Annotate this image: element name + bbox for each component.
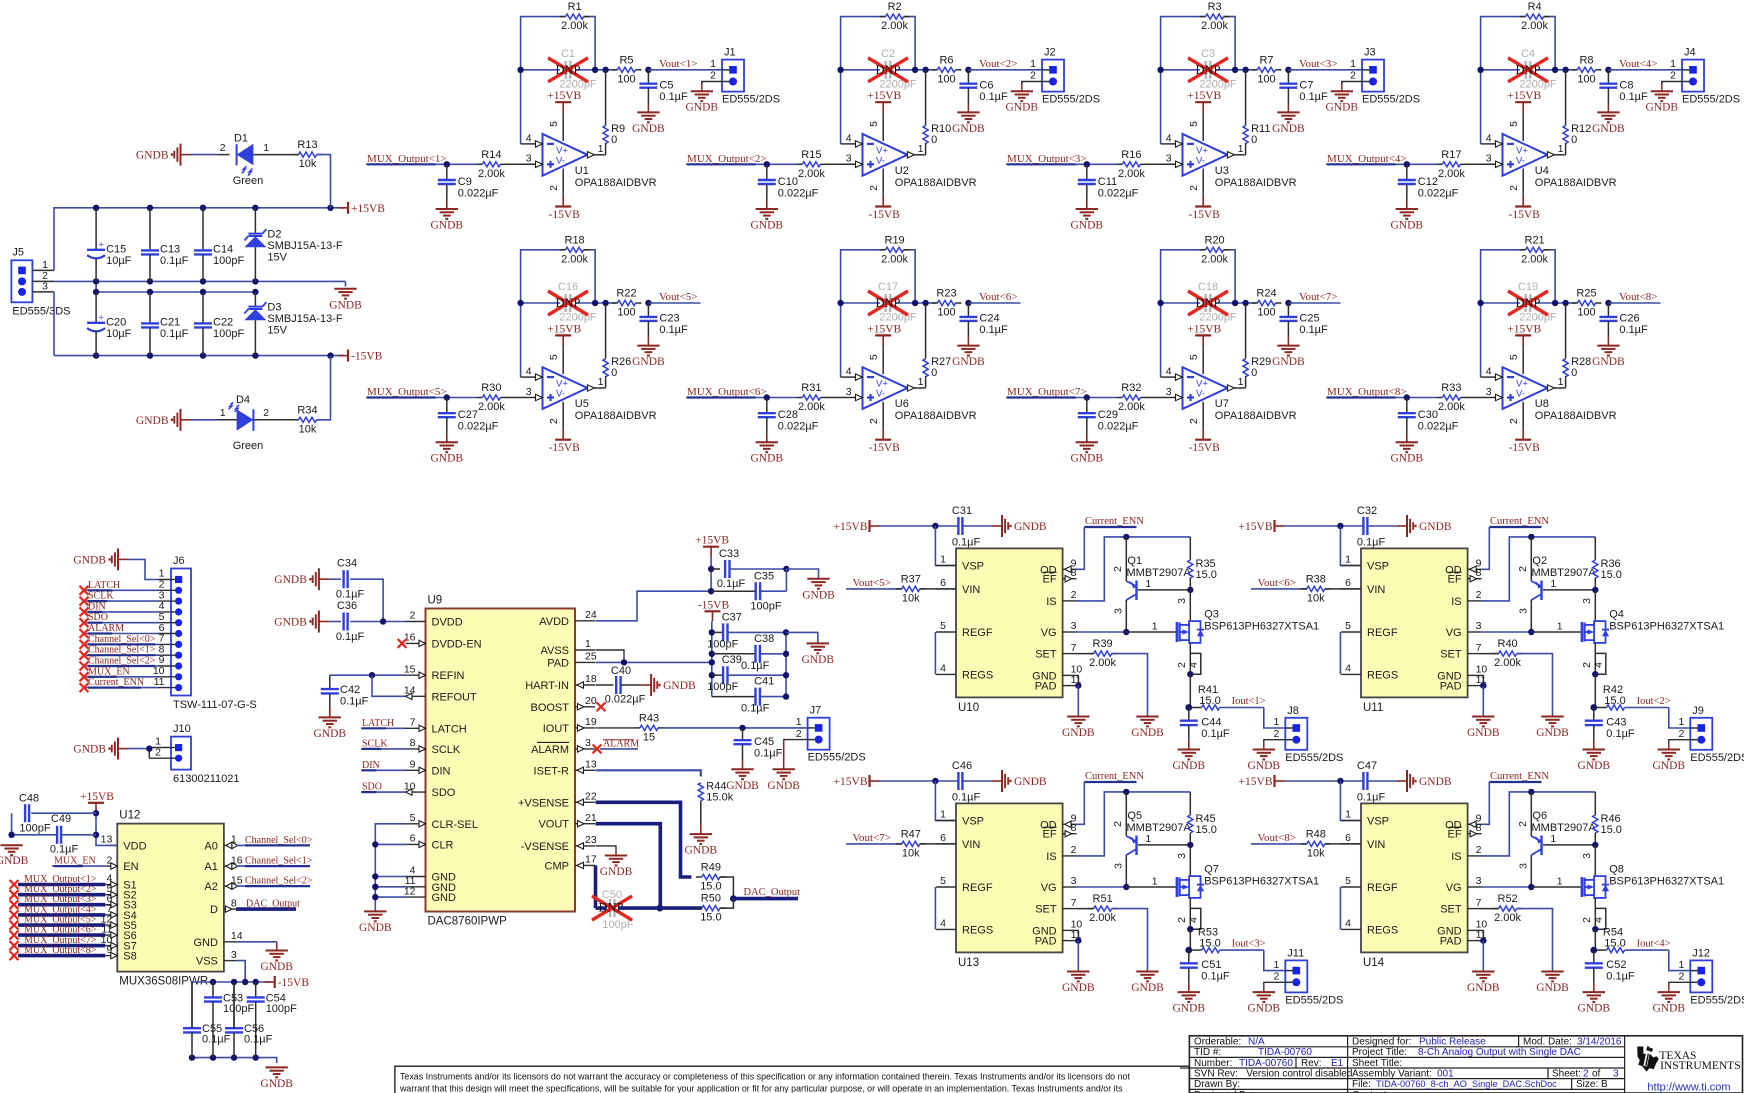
svg-text:BSP613PH6327XTSA1: BSP613PH6327XTSA1 bbox=[1204, 876, 1319, 888]
junction bbox=[730, 895, 737, 902]
wire Q base bbox=[1543, 589, 1595, 591]
svg-text:J2: J2 bbox=[1044, 47, 1056, 59]
capacitor C12 bbox=[1398, 164, 1459, 209]
junction bbox=[1562, 300, 1568, 306]
net DAC_Output bbox=[236, 899, 300, 910]
wire to ground bbox=[345, 281, 347, 286]
svg-text:3: 3 bbox=[1581, 598, 1593, 604]
svg-text:GNDB: GNDB bbox=[952, 123, 985, 135]
resistor R22 bbox=[612, 288, 642, 319]
svg-text:GNDB: GNDB bbox=[136, 150, 169, 162]
svg-text:2.00k: 2.00k bbox=[881, 20, 908, 32]
junction bbox=[372, 884, 378, 890]
net MUX_Output<1> bbox=[366, 153, 447, 165]
wire +15VB rail bbox=[54, 208, 344, 271]
transistor Q5 MMBT2907A bbox=[1112, 792, 1192, 887]
svg-text:U12: U12 bbox=[119, 810, 140, 822]
resistor R3 bbox=[1200, 1, 1230, 32]
svg-text:4: 4 bbox=[1166, 132, 1172, 144]
svg-text:0: 0 bbox=[1251, 134, 1257, 146]
svg-text:0: 0 bbox=[611, 367, 617, 379]
connector J10 61300211021 bbox=[149, 723, 239, 785]
svg-text:PAD: PAD bbox=[1035, 681, 1057, 693]
ground GNDB bbox=[274, 611, 329, 633]
junction bbox=[922, 300, 928, 306]
junction bbox=[1185, 704, 1192, 711]
svg-text:2: 2 bbox=[1176, 917, 1188, 923]
svg-text:C36: C36 bbox=[337, 600, 357, 612]
svg-text:LATCH: LATCH bbox=[88, 580, 120, 591]
svg-text:2: 2 bbox=[1273, 728, 1279, 740]
svg-text:AVSS: AVSS bbox=[540, 645, 569, 657]
svg-text:C27: C27 bbox=[458, 409, 478, 421]
wire bbox=[1481, 653, 1498, 655]
svg-text:GNDB: GNDB bbox=[1071, 220, 1104, 232]
svg-text:2.00k: 2.00k bbox=[561, 20, 588, 32]
svg-text:of: of bbox=[1592, 1068, 1601, 1079]
pin EN 2 bbox=[105, 854, 138, 873]
svg-text:GNDB: GNDB bbox=[329, 299, 362, 311]
ground GNDB bbox=[1071, 442, 1104, 465]
ground GNDB bbox=[632, 346, 665, 369]
svg-text:R43: R43 bbox=[639, 712, 659, 724]
capacitor C19 DNP bbox=[1518, 281, 1557, 324]
wire VSP bbox=[1340, 526, 1361, 566]
pin EF 8 bbox=[1043, 567, 1077, 586]
svg-text:C8: C8 bbox=[1619, 80, 1633, 92]
svg-text:2: 2 bbox=[1581, 917, 1593, 923]
ground GNDB bbox=[1397, 515, 1452, 537]
svg-text:VG: VG bbox=[1041, 882, 1057, 894]
wire ground rail bbox=[190, 1058, 277, 1063]
junction bbox=[912, 67, 918, 73]
wire VSP bbox=[935, 526, 956, 566]
net Vout<4> bbox=[1608, 58, 1682, 70]
svg-text:C18: C18 bbox=[1198, 281, 1218, 293]
wire Q base bbox=[1138, 844, 1190, 846]
pin S2 5 bbox=[105, 883, 136, 902]
svg-text:10k: 10k bbox=[902, 847, 920, 859]
svg-text:MUX_Output<8>: MUX_Output<8> bbox=[1327, 386, 1407, 398]
svg-text:0: 0 bbox=[931, 134, 937, 146]
svg-text:SMBJ15A-13-F: SMBJ15A-13-F bbox=[267, 313, 342, 325]
svg-text:GNDB: GNDB bbox=[1248, 1003, 1281, 1015]
svg-text:2: 2 bbox=[1517, 821, 1529, 827]
junction bbox=[602, 67, 608, 73]
capacitor C36 bbox=[336, 600, 365, 643]
svg-text:2: 2 bbox=[548, 185, 560, 191]
wire bbox=[1668, 986, 1670, 993]
svg-text:GNDB: GNDB bbox=[1326, 102, 1359, 114]
capacitor C48 bbox=[19, 793, 51, 835]
junction bbox=[517, 67, 523, 73]
net MUX_Output<6> bbox=[686, 386, 767, 398]
svg-text:23: 23 bbox=[585, 834, 597, 846]
svg-text:1: 1 bbox=[220, 407, 226, 419]
title block text bbox=[1194, 1037, 1622, 1091]
svg-text:VSP: VSP bbox=[1367, 816, 1389, 828]
capacitor C53 bbox=[204, 982, 254, 1058]
wire bbox=[720, 899, 734, 909]
pin S4 7 bbox=[105, 903, 136, 922]
wire SET to ground bbox=[1517, 909, 1553, 972]
resistor R41 bbox=[1190, 684, 1220, 710]
svg-text:2: 2 bbox=[1583, 1068, 1589, 1079]
svg-text:4: 4 bbox=[1592, 662, 1604, 668]
wire bbox=[1368, 780, 1397, 782]
pin SDO 10 bbox=[404, 780, 456, 799]
capacitor C54 bbox=[247, 982, 297, 1058]
no-connect X bbox=[10, 931, 19, 940]
pin SET 7 bbox=[1035, 642, 1076, 661]
capacitor C45 bbox=[734, 728, 783, 769]
wire bbox=[1325, 843, 1361, 845]
svg-text:+: + bbox=[98, 240, 104, 251]
svg-text:Size: B: Size: B bbox=[1576, 1079, 1608, 1090]
pin CMP 17 bbox=[545, 854, 597, 873]
svg-text:15V: 15V bbox=[267, 252, 287, 264]
capacitor C38 bbox=[712, 633, 786, 672]
svg-text:R4: R4 bbox=[1528, 1, 1542, 13]
svg-text:Vout<5>: Vout<5> bbox=[659, 291, 698, 303]
svg-text:100pF: 100pF bbox=[707, 638, 738, 650]
junction bbox=[783, 693, 789, 699]
wire opamp V+ pin 5 bbox=[548, 345, 563, 374]
svg-text:10k: 10k bbox=[1307, 592, 1325, 604]
junction bbox=[252, 205, 258, 211]
svg-text:3: 3 bbox=[526, 153, 532, 165]
junction bbox=[837, 67, 843, 73]
resistor R29 bbox=[1243, 356, 1271, 379]
svg-text:1: 1 bbox=[1558, 143, 1564, 155]
svg-text:ED555/2DS: ED555/2DS bbox=[1682, 94, 1740, 106]
svg-text:Vout<3>: Vout<3> bbox=[1299, 58, 1338, 70]
svg-text:REGF: REGF bbox=[1367, 627, 1398, 639]
capacitor C6 bbox=[959, 70, 1008, 113]
svg-text:CLR-SEL: CLR-SEL bbox=[432, 819, 478, 831]
wire opamp pin 3 bbox=[505, 153, 543, 168]
transistor Q2 MMBT2907A bbox=[1517, 537, 1597, 632]
op-amp U7 OPA188AIDBVR bbox=[1183, 367, 1297, 422]
svg-text:GNDB: GNDB bbox=[260, 1078, 293, 1090]
wire SET to ground bbox=[1112, 654, 1148, 717]
wire opamp V+ pin 5 bbox=[1188, 345, 1203, 374]
svg-text:2: 2 bbox=[155, 746, 161, 758]
svg-text:OPA188AIDBVR: OPA188AIDBVR bbox=[1535, 177, 1617, 189]
svg-text:C29: C29 bbox=[1098, 409, 1118, 421]
junction bbox=[1075, 682, 1081, 688]
capacitor C41 bbox=[712, 676, 786, 715]
svg-text:3: 3 bbox=[231, 949, 237, 961]
svg-text:GNDB: GNDB bbox=[663, 680, 696, 692]
pin S6 11 bbox=[101, 923, 136, 942]
resistor R26 bbox=[603, 356, 631, 379]
wire bbox=[880, 525, 959, 527]
svg-text:Q2: Q2 bbox=[1532, 555, 1547, 567]
pin IS 2 bbox=[1046, 844, 1076, 863]
svg-text:2.00k: 2.00k bbox=[1089, 657, 1116, 669]
svg-text:8: 8 bbox=[1071, 567, 1077, 579]
net Vout<5> bbox=[846, 577, 902, 589]
wire bbox=[191, 154, 219, 156]
wire bbox=[700, 775, 702, 778]
op-amp U2 OPA188AIDBVR bbox=[863, 134, 977, 189]
junction bbox=[1337, 778, 1343, 784]
svg-text:TIDA-00760: TIDA-00760 bbox=[1258, 1047, 1312, 1058]
svg-text:VG: VG bbox=[1446, 627, 1462, 639]
no-connect X bbox=[80, 672, 89, 681]
resistor R49 bbox=[696, 862, 726, 893]
svg-text:S8: S8 bbox=[123, 951, 136, 963]
ground GNDB bbox=[1062, 717, 1095, 740]
svg-text:C12: C12 bbox=[1418, 176, 1438, 188]
svg-text:R32: R32 bbox=[1121, 382, 1141, 394]
svg-text:REGS: REGS bbox=[962, 924, 993, 936]
pin PAD 11 bbox=[1035, 674, 1082, 693]
svg-text:GNDB: GNDB bbox=[314, 728, 347, 740]
svg-text:1: 1 bbox=[1550, 833, 1556, 845]
svg-text:100: 100 bbox=[1577, 307, 1595, 319]
svg-text:Vout<8>: Vout<8> bbox=[1619, 291, 1658, 303]
svg-text:C31: C31 bbox=[952, 505, 972, 517]
svg-text:EN: EN bbox=[123, 861, 138, 873]
svg-text:3: 3 bbox=[585, 737, 591, 749]
svg-text:4: 4 bbox=[1187, 662, 1199, 668]
capacitor C7 bbox=[1279, 70, 1328, 113]
svg-text:C39: C39 bbox=[722, 654, 742, 666]
pin GND 4 bbox=[406, 865, 457, 884]
capacitor C13 bbox=[141, 208, 189, 282]
svg-text:R38: R38 bbox=[1306, 573, 1326, 585]
wire bbox=[1285, 525, 1364, 527]
no-connect X bbox=[10, 921, 19, 930]
svg-text:ED555/2DS: ED555/2DS bbox=[722, 94, 780, 106]
pin SCLK 8 bbox=[406, 737, 461, 756]
net Vout<6> bbox=[968, 291, 1020, 303]
svg-text:TIDA-00760: TIDA-00760 bbox=[1239, 1058, 1293, 1069]
svg-text:-VSENSE: -VSENSE bbox=[521, 841, 569, 853]
svg-text:15.0: 15.0 bbox=[1199, 695, 1220, 707]
capacitor C15 bbox=[87, 208, 132, 282]
resistor R30 bbox=[476, 382, 506, 413]
svg-text:MUX_Output<1>: MUX_Output<1> bbox=[367, 153, 447, 165]
wire feedback right bbox=[584, 17, 596, 70]
net Current_ENN bbox=[1489, 516, 1549, 527]
svg-text:10µF: 10µF bbox=[106, 328, 132, 340]
svg-text:Texas Instruments and/or its l: Texas Instruments and/or its licensors d… bbox=[400, 1072, 1130, 1082]
op-amp U6 OPA188AIDBVR bbox=[863, 367, 977, 422]
svg-text:BSP613PH6327XTSA1: BSP613PH6327XTSA1 bbox=[1204, 621, 1319, 633]
net ALARM bbox=[600, 738, 639, 749]
wire bbox=[329, 578, 341, 580]
wire VSP bbox=[1340, 781, 1361, 821]
svg-text:15.0: 15.0 bbox=[1604, 938, 1625, 950]
junction bbox=[708, 566, 714, 572]
svg-text:C13: C13 bbox=[160, 244, 180, 256]
svg-text:7: 7 bbox=[1476, 897, 1482, 909]
svg-text:1: 1 bbox=[1678, 959, 1684, 971]
svg-text:GNDB: GNDB bbox=[802, 589, 835, 601]
svg-text:GNDB: GNDB bbox=[686, 102, 719, 114]
pin GND 12 bbox=[404, 885, 456, 904]
svg-text:15: 15 bbox=[643, 731, 655, 743]
wire VG bbox=[1481, 886, 1531, 888]
svg-text:2200pF: 2200pF bbox=[879, 78, 917, 90]
svg-text:10k: 10k bbox=[1307, 847, 1325, 859]
no-connect X bbox=[10, 910, 19, 919]
svg-text:0.1µF: 0.1µF bbox=[1201, 971, 1230, 983]
svg-text:A1: A1 bbox=[204, 861, 217, 873]
wire IS net bbox=[1076, 792, 1190, 856]
svg-text:GNDB: GNDB bbox=[767, 780, 800, 792]
svg-text:5: 5 bbox=[410, 812, 416, 824]
resistor R19 bbox=[880, 234, 910, 265]
svg-text:-15VB: -15VB bbox=[549, 442, 581, 454]
capacitor C43 bbox=[1585, 708, 1635, 750]
svg-text:C24: C24 bbox=[979, 313, 999, 325]
junction bbox=[1480, 937, 1486, 943]
svg-text:+15VB: +15VB bbox=[80, 791, 114, 803]
junction bbox=[1285, 67, 1291, 73]
svg-text:ED555/2DS: ED555/2DS bbox=[1690, 994, 1744, 1006]
junction bbox=[200, 205, 206, 211]
ground GNDB bbox=[726, 769, 759, 792]
svg-text:20: 20 bbox=[585, 695, 597, 707]
svg-text:REGF: REGF bbox=[1367, 882, 1398, 894]
svg-text:TSW-111-07-G-S: TSW-111-07-G-S bbox=[173, 699, 257, 711]
svg-text:C47: C47 bbox=[1357, 760, 1377, 772]
svg-text:3: 3 bbox=[1166, 153, 1172, 165]
resistor R47 bbox=[896, 828, 926, 859]
junction bbox=[1187, 842, 1193, 848]
wire opamp output pin 1 bbox=[1227, 143, 1245, 158]
power +15VB bbox=[1187, 323, 1221, 345]
svg-text:AVDD: AVDD bbox=[539, 616, 569, 628]
junction bbox=[1123, 534, 1129, 540]
wire +VSENSE bus bbox=[596, 802, 692, 877]
ground GNDB bbox=[431, 442, 464, 465]
pin A2 15 bbox=[204, 874, 242, 893]
resistor R4 bbox=[1520, 1, 1550, 32]
pin A1 16 bbox=[204, 854, 242, 873]
svg-text:5: 5 bbox=[1188, 121, 1200, 127]
pin VSP 1 bbox=[1341, 809, 1389, 828]
svg-text:R17: R17 bbox=[1441, 149, 1461, 161]
svg-text:J11: J11 bbox=[1287, 947, 1304, 959]
svg-text:0.1µF: 0.1µF bbox=[952, 792, 981, 804]
resistor R36 bbox=[1593, 537, 1622, 590]
pin DVDD-EN 16 bbox=[404, 632, 482, 651]
wire DVDD bbox=[350, 621, 405, 623]
svg-text:GNDB: GNDB bbox=[1653, 760, 1686, 772]
wire R9 to feedback node bbox=[925, 70, 927, 126]
pin GND 10 bbox=[1437, 664, 1487, 683]
capacitor C4 DNP bbox=[1519, 48, 1557, 91]
svg-text:V-: V- bbox=[1196, 155, 1205, 166]
svg-text:R8: R8 bbox=[1579, 54, 1593, 66]
svg-text:C25: C25 bbox=[1299, 313, 1319, 325]
net Current_ENN bbox=[1489, 771, 1549, 782]
svg-text:DAC_Output: DAC_Output bbox=[246, 899, 300, 910]
wire C49 row bbox=[12, 834, 56, 836]
svg-text:J12: J12 bbox=[1692, 947, 1710, 959]
wire bbox=[1368, 525, 1397, 527]
svg-text:R20: R20 bbox=[1205, 234, 1225, 246]
capacitor C32 bbox=[1357, 505, 1386, 549]
svg-text:2: 2 bbox=[1273, 971, 1279, 983]
junction bbox=[1123, 884, 1129, 890]
svg-text:V-: V- bbox=[556, 389, 565, 400]
svg-text:13: 13 bbox=[101, 834, 113, 846]
svg-text:0.1µF: 0.1µF bbox=[202, 1034, 231, 1046]
svg-text:GNDB: GNDB bbox=[1131, 982, 1164, 994]
junction bbox=[1187, 671, 1193, 677]
junction bbox=[242, 979, 248, 985]
capacitor C49 bbox=[50, 813, 79, 855]
svg-text:2: 2 bbox=[1508, 185, 1520, 191]
svg-text:C1: C1 bbox=[561, 48, 575, 60]
svg-text:3: 3 bbox=[1176, 598, 1188, 604]
wire PAD to ground bbox=[1482, 686, 1484, 717]
capacitor C27 bbox=[438, 398, 499, 443]
svg-text:0.1µF: 0.1µF bbox=[659, 91, 688, 103]
junction bbox=[1185, 947, 1192, 954]
svg-text:DNP: DNP bbox=[875, 63, 900, 77]
svg-text:MUX_Output<4>: MUX_Output<4> bbox=[1327, 153, 1407, 165]
capacitor C39 bbox=[707, 654, 786, 693]
wire bbox=[1189, 674, 1191, 707]
wire bbox=[896, 302, 938, 304]
wire J7 pin2 bbox=[784, 740, 808, 760]
svg-text:2.00k: 2.00k bbox=[478, 168, 505, 180]
no-connect X bbox=[80, 586, 89, 595]
net MUX_Output<3> bbox=[18, 894, 105, 905]
svg-text:2: 2 bbox=[1071, 844, 1077, 856]
svg-text:25: 25 bbox=[585, 651, 597, 663]
wire cap bank right bbox=[785, 632, 787, 696]
svg-text:V-: V- bbox=[876, 155, 885, 166]
junction bbox=[200, 289, 206, 295]
junction bbox=[253, 1054, 259, 1060]
pin SET 7 bbox=[1035, 897, 1076, 916]
capacitor C10 bbox=[758, 164, 819, 209]
svg-text:0.1µF: 0.1µF bbox=[1606, 728, 1635, 740]
svg-text:DAC8760IPWP: DAC8760IPWP bbox=[428, 916, 508, 928]
pin VOUT 21 bbox=[538, 812, 596, 831]
pin VIN 6 bbox=[1341, 577, 1385, 596]
junction bbox=[1592, 671, 1598, 677]
wire bbox=[1668, 743, 1670, 750]
svg-text:5: 5 bbox=[1508, 354, 1520, 360]
svg-text:EF: EF bbox=[1448, 574, 1462, 586]
wire opamp output pin 1 bbox=[1227, 376, 1245, 391]
junction bbox=[783, 651, 789, 657]
pin VG 3 bbox=[1041, 620, 1077, 639]
pin LATCH 7 bbox=[406, 717, 467, 736]
wire opamp output pin 1 bbox=[1547, 143, 1565, 158]
ground GNDB bbox=[1006, 91, 1039, 114]
net Channel_Sel<2> bbox=[236, 876, 313, 887]
svg-text:C46: C46 bbox=[952, 760, 972, 772]
svg-text:REGS: REGS bbox=[962, 669, 993, 681]
pin A0 1 bbox=[204, 834, 237, 853]
wire REGF-REGS bbox=[934, 887, 936, 929]
wire Q base bbox=[1138, 589, 1190, 591]
svg-text:22: 22 bbox=[585, 791, 597, 803]
svg-text:0.022µF: 0.022µF bbox=[778, 421, 819, 433]
wire bbox=[841, 69, 880, 71]
svg-text:15.0: 15.0 bbox=[1604, 695, 1625, 707]
